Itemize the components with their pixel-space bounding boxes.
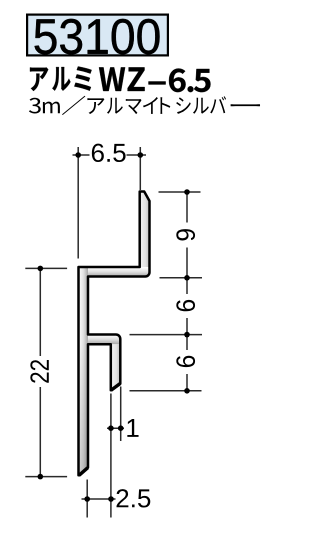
dim text 2.5 [117, 489, 151, 507]
profile fill: middle fin [111, 344, 121, 390]
profile fill: left wall [79, 267, 89, 475]
dim 6.5 line [73, 154, 147, 156]
dim line 9/6/6 vertical [186, 192, 188, 391]
dim 1 end dot left [108, 425, 114, 431]
dim 6.5 extension line right [139, 147, 141, 190]
dim text 22 background [32, 356, 48, 387]
profile fill: left wall lower shading [79, 340, 89, 475]
dim text 9 background [179, 223, 195, 248]
profile fill: top leg [88, 267, 150, 277]
right extension line at middle fin bottom [130, 390, 202, 392]
dim 9 end dot top [184, 189, 190, 195]
dim text 6 (upper) [176, 300, 195, 311]
dim text 6 upper background [179, 294, 195, 318]
dim text 9 [176, 229, 195, 240]
dim 1 end dot right [118, 425, 124, 431]
dim 2.5 extension line left (wall inner edge) [86, 480, 88, 518]
dim 6.5 extension line left [77, 147, 79, 259]
dim 6.5 end dot left [75, 152, 81, 158]
dim 9/6 shared dot [184, 275, 190, 281]
dim 6.5 end dot right [138, 152, 144, 158]
dim 1 line [107, 427, 124, 429]
dim 6/6 shared dot [184, 332, 190, 338]
right extension line at fin top [159, 191, 201, 193]
profile fill: top fin [140, 192, 150, 268]
right extension line at middle leg top [130, 334, 203, 336]
chamfer reinforcement middle fin tip [111, 384, 120, 391]
dim 1 extension line left (fin left edge) [110, 394, 112, 518]
dim text 22 [30, 360, 48, 383]
dim 2.5 end dot left [84, 496, 90, 502]
dim text 6.5 [92, 144, 126, 162]
dim 2.5 end dot right [108, 496, 114, 502]
dim line 22 vertical [39, 268, 41, 476]
product name line 2: 3m／アルマイトシルバー [29, 98, 41, 114]
dim 22 end dot top [38, 266, 44, 272]
dim 22 end dot bottom [38, 474, 44, 480]
product name line 1: アルミWZ－6.5 [30, 67, 48, 91]
dim text 1 [127, 419, 138, 437]
part number box [27, 15, 168, 56]
dim 22 extension line bottom [25, 476, 67, 478]
dim 2.5 line [82, 498, 116, 500]
dim text 6 (lower) [176, 356, 195, 367]
profile fill: middle leg [88, 335, 120, 345]
dim text 6 lower background [179, 350, 195, 374]
dim 1 extension line right (fin right edge) [120, 387, 122, 442]
dim 6 end dot bottom [184, 388, 190, 394]
dim 22 extension line top [25, 267, 67, 269]
right extension line at top leg bottom [160, 277, 203, 279]
dim text 6.5 background [90, 143, 127, 163]
chamfer reinforcement wall bottom tip [79, 468, 88, 476]
part number text 53100 [35, 19, 160, 54]
profile outline [79, 192, 150, 476]
